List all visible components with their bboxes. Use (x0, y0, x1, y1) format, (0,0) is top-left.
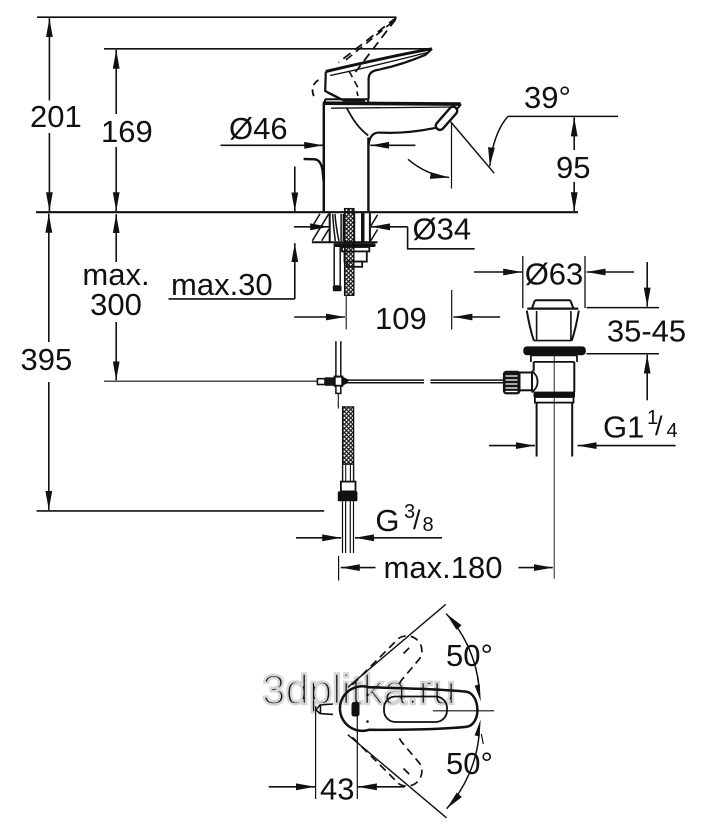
svg-text:G: G (375, 503, 399, 538)
svg-text:Ø46: Ø46 (229, 111, 288, 146)
svg-text:G1: G1 (603, 410, 644, 445)
svg-text:109: 109 (375, 301, 427, 336)
svg-text:Ø34: Ø34 (413, 212, 472, 247)
svg-text:4: 4 (667, 420, 678, 442)
svg-text:max.30: max.30 (171, 267, 273, 302)
svg-text:max.180: max.180 (384, 550, 503, 585)
svg-text:50°: 50° (446, 638, 493, 673)
svg-text:/: / (413, 505, 421, 535)
svg-text:/: / (655, 411, 663, 441)
svg-text:Ø63: Ø63 (525, 257, 584, 292)
svg-text:169: 169 (101, 114, 153, 149)
svg-text:43: 43 (320, 772, 354, 807)
svg-text:201: 201 (30, 99, 82, 134)
svg-text:35-45: 35-45 (607, 314, 686, 349)
svg-text:8: 8 (423, 514, 434, 536)
svg-text:300: 300 (90, 287, 142, 322)
svg-text:395: 395 (21, 342, 73, 377)
svg-text:39°: 39° (524, 80, 571, 115)
svg-text:95: 95 (556, 150, 590, 185)
svg-text:50°: 50° (446, 746, 493, 781)
